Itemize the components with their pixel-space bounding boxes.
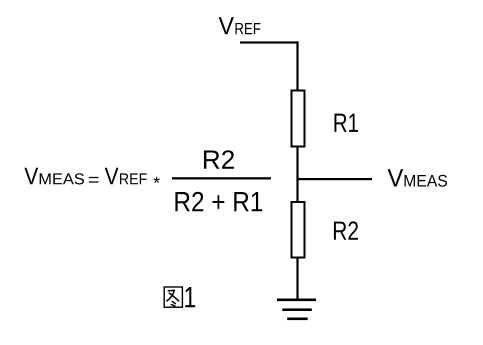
fraction denominator R2 + R1 xyxy=(175,192,262,212)
wire R1 to R2 xyxy=(296,147,298,203)
wire node to VMEAS xyxy=(297,178,372,180)
label R1 xyxy=(334,114,358,132)
ground xyxy=(277,299,316,321)
net label VMEAS xyxy=(388,169,447,186)
figure label 图1 xyxy=(164,287,195,307)
resistor R1 xyxy=(292,91,305,147)
wire VREF vertical drop xyxy=(296,41,298,90)
label R2 xyxy=(334,221,358,240)
formula VMEAS = VREF * xyxy=(24,168,159,185)
fraction bar xyxy=(172,177,271,179)
net label VREF xyxy=(219,17,261,34)
resistor R2 xyxy=(292,202,305,258)
fraction numerator R2 xyxy=(204,150,234,169)
wire VREF horizontal xyxy=(240,41,299,43)
wire R2 to ground xyxy=(296,258,298,301)
